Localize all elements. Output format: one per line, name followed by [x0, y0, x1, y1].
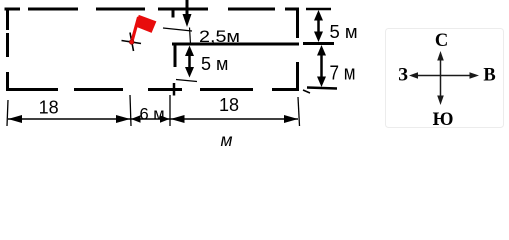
svg-text:м: м — [221, 130, 233, 150]
bottom dimension extension lines — [7, 95, 300, 126]
right bottom tick — [307, 88, 337, 89]
field boundary right dashed edge — [296, 8, 299, 92]
inner wall vertical stub — [174, 44, 177, 67]
compass vertical double arrow — [437, 51, 444, 105]
field boundary left dashed edge — [6, 8, 9, 92]
svg-text:5 м: 5 м — [330, 21, 358, 42]
small slanted tick right of bottom corner — [303, 90, 310, 93]
slanted tick at 2,5m level — [163, 28, 192, 31]
red flag cloth — [135, 15, 157, 33]
right 5m double arrow — [314, 10, 323, 42]
slanted tick below inner arrow — [176, 80, 197, 82]
field boundary top dashed edge — [5, 8, 300, 11]
svg-text:18: 18 — [219, 95, 239, 115]
svg-text:6 м: 6 м — [139, 106, 164, 124]
tick crossing bottom edge — [173, 83, 176, 96]
bottom dimension arrowheads — [8, 115, 298, 123]
top entry arrow — [183, 0, 192, 44]
right 7m double arrow — [317, 45, 326, 87]
svg-text:С: С — [435, 31, 448, 51]
svg-text:7 м: 7 м — [330, 62, 356, 85]
svg-text:18: 18 — [39, 98, 59, 118]
svg-text:З: З — [398, 66, 408, 86]
red flag base dot — [129, 40, 134, 45]
right middle tick — [303, 42, 334, 45]
red flag pole — [132, 17, 139, 42]
compass faint frame — [386, 29, 504, 128]
svg-text:В: В — [483, 66, 495, 86]
tick below top edge — [172, 10, 175, 18]
right 5m dimension top tick — [306, 8, 331, 11]
svg-text:5 м: 5 м — [201, 54, 228, 74]
bottom dimension line — [8, 118, 298, 120]
svg-text:Ю: Ю — [433, 110, 454, 130]
inner wall horizontal line — [172, 43, 299, 46]
inner 5m double arrow — [185, 46, 194, 78]
compass horizontal double arrow — [409, 72, 479, 79]
field boundary bottom dashed edge — [6, 88, 299, 91]
red flag marker crosshair — [122, 33, 142, 52]
